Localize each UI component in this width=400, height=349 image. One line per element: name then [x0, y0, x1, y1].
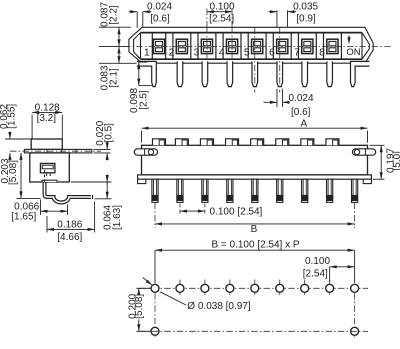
- front view pins with solder tips: [152, 179, 158, 202]
- svg-text:[2.54]: [2.54]: [209, 13, 234, 24]
- top row holes: [151, 284, 159, 292]
- svg-text:[2.5]: [2.5]: [138, 90, 149, 110]
- svg-text:[3.2]: [3.2]: [37, 113, 57, 124]
- body bottom notch: [42, 180, 57, 182]
- actuator bumps on top edge: [153, 139, 166, 146]
- svg-text:[5.08]: [5.08]: [8, 160, 19, 185]
- svg-text:0.024: 0.024: [147, 2, 172, 13]
- base band of front view: [138, 175, 372, 179]
- svg-text:8: 8: [319, 46, 325, 58]
- horizontal center line of top view: [99, 45, 391, 47]
- dimension 0.098 [2.5] (left, lead length): [138, 62, 140, 86]
- switch 2 slide actuator: [176, 39, 187, 53]
- dimension 0.024 [0.6] (bottom, pin width): [276, 89, 278, 107]
- switch 1 slide actuator: [153, 39, 164, 53]
- center line through pin 5: [254, 28, 256, 93]
- svg-text:Ø 0.038 [0.97]: Ø 0.038 [0.97]: [187, 301, 251, 312]
- svg-text:[2.1]: [2.1]: [109, 68, 120, 88]
- hole center lines (vertical): [179, 280, 181, 298]
- svg-text:[1.65]: [1.65]: [11, 211, 36, 222]
- svg-text:0.035: 0.035: [293, 2, 318, 13]
- svg-text:B = 0.100 [2.54] x P: B = 0.100 [2.54] x P: [211, 240, 299, 251]
- svg-text:3: 3: [194, 46, 200, 58]
- middle pins (top view): [177, 61, 183, 86]
- dimension 0.197 [5.0] (height, rotated): [370, 144, 385, 146]
- actuator step on top of side view body: [31, 139, 62, 149]
- svg-text:[2.2]: [2.2]: [109, 5, 120, 25]
- ON direction arrow: [348, 36, 350, 42]
- dimension line 0.087/0.083: [118, 27, 120, 63]
- hidden lead inside body (dashed): [44, 170, 46, 183]
- dimension 0.066 [1.65] (lead offset): [40, 200, 42, 216]
- left foot: [138, 179, 146, 183]
- left mounting tab (pill): [134, 149, 157, 155]
- svg-text:2: 2: [169, 46, 175, 58]
- switch 6 slide actuator: [277, 39, 288, 53]
- body outer outline (hexagonal, chamfered ends): [129, 27, 373, 63]
- svg-text:[5.0]: [5.0]: [392, 151, 400, 171]
- cell divider lines: [165, 33, 167, 60]
- svg-text:[1.63]: [1.63]: [112, 205, 123, 230]
- switch 7 slide actuator: [302, 39, 313, 53]
- extension lines for left dimensions: [99, 26, 131, 28]
- recess window in side view body: [40, 163, 55, 172]
- lead end cap: [92, 195, 94, 199]
- left end inner outline: [134, 33, 141, 60]
- formed surface-mount lead (side view): [45, 183, 91, 203]
- side view body: [30, 153, 70, 182]
- left corner lead (top view): [137, 61, 157, 86]
- svg-text:ON: ON: [346, 47, 360, 58]
- right end inner outline: [362, 33, 369, 60]
- right foot: [363, 179, 371, 183]
- svg-text:B: B: [251, 224, 258, 235]
- front view body: [142, 145, 368, 175]
- svg-text:5: 5: [244, 46, 250, 58]
- dimension B (pin row span): [154, 203, 156, 229]
- horizontal axis of top hole row: [140, 287, 369, 289]
- hole diameter callout leader: [160, 292, 186, 305]
- switch 8 slide actuator: [327, 39, 338, 53]
- dimension 0.100 [2.54] (front pin pitch): [180, 210, 205, 212]
- dimension line B (PCB): [155, 249, 355, 251]
- side tab bar (seal flange) of side view: [24, 149, 91, 153]
- svg-text:[0.6]: [0.6]: [291, 107, 311, 118]
- svg-text:1: 1: [144, 46, 150, 58]
- switch 4 slide actuator: [226, 39, 237, 53]
- right corner lead (top view): [351, 61, 370, 86]
- svg-text:7: 7: [294, 46, 300, 58]
- svg-text:0.024: 0.024: [289, 93, 314, 104]
- svg-text:[1.55]: [1.55]: [6, 104, 17, 129]
- center line through pin 6: [279, 28, 281, 93]
- svg-text:0.100: 0.100: [305, 256, 330, 267]
- switch 5 slide actuator: [252, 39, 263, 53]
- center line through switch 3 (vertical): [206, 27, 208, 60]
- upper stubs of center lines through switches 3 and 4: [206, 9, 208, 28]
- horizontal center line of side view: [10, 150, 101, 152]
- svg-text:[0.6]: [0.6]: [150, 13, 170, 24]
- right mounting tab (pill): [352, 149, 375, 155]
- body inner top edge: [141, 32, 363, 34]
- svg-text:4: 4: [219, 46, 225, 58]
- svg-text:[2.54]: [2.54]: [303, 269, 328, 280]
- body inner bottom edge: [141, 58, 363, 60]
- bottom corner holes: [151, 327, 159, 335]
- horizontal axis of bottom holes: [140, 330, 369, 332]
- svg-text:[5.08]: [5.08]: [134, 294, 145, 319]
- dimension 0.064 [1.63] (standoff height, rotated): [71, 181, 112, 183]
- svg-text:[4.66]: [4.66]: [57, 232, 82, 243]
- svg-text:[0.9]: [0.9]: [296, 13, 316, 24]
- switch 3 slide actuator: [201, 39, 212, 53]
- svg-text:6: 6: [269, 46, 275, 58]
- svg-text:[0.5]: [0.5]: [104, 123, 115, 143]
- svg-text:0.100 [2.54]: 0.100 [2.54]: [210, 206, 263, 217]
- svg-text:0.186: 0.186: [57, 219, 82, 230]
- dimension 0.186 [4.66] (lead length): [46, 216, 48, 233]
- dimension 0.200 [5.08] (row spacing, rotated): [136, 287, 150, 289]
- center line through switch 4 (vertical): [231, 27, 233, 60]
